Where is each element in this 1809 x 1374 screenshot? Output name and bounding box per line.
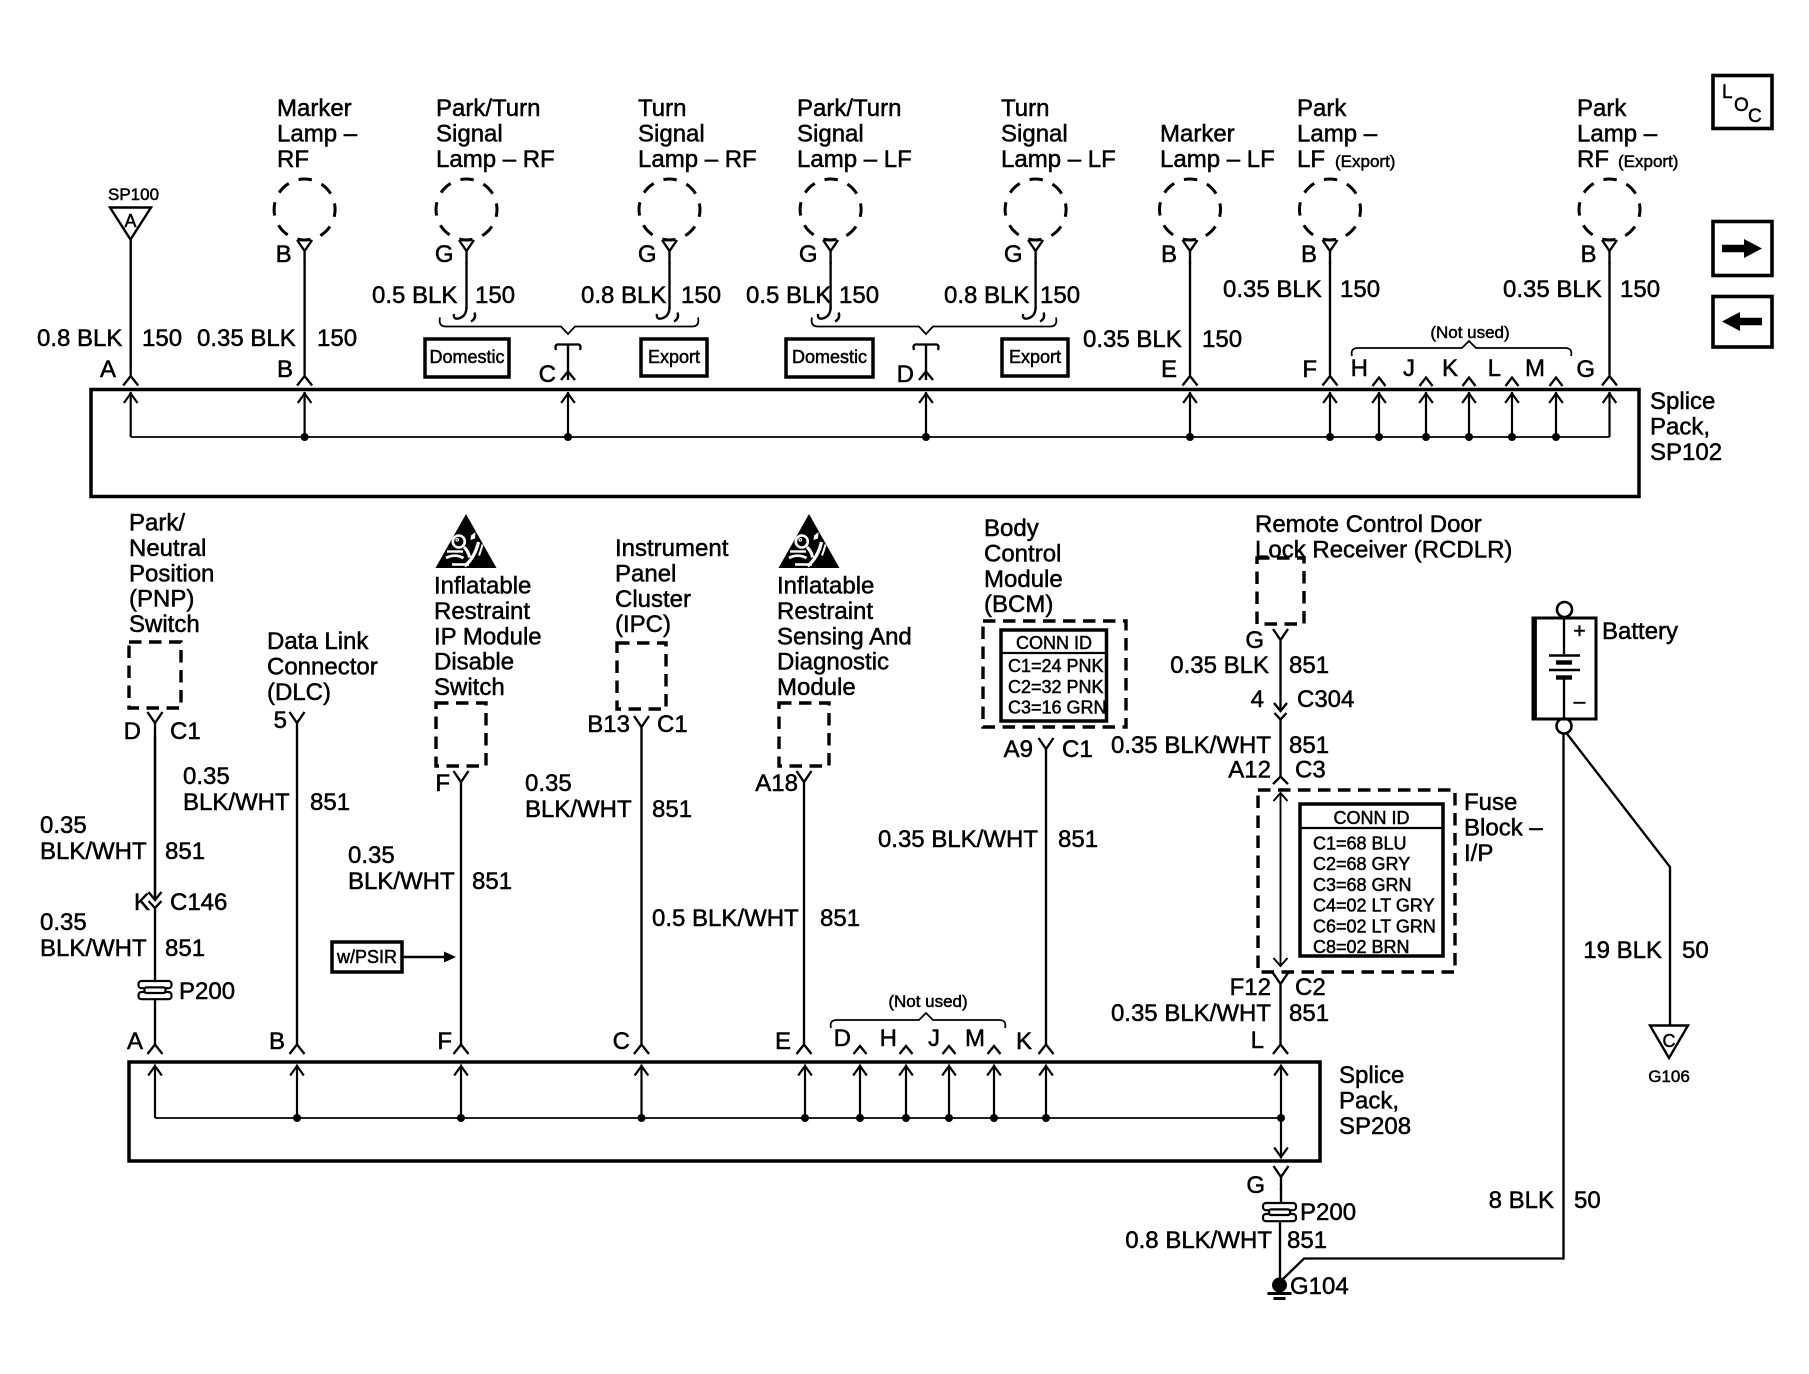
svg-text:Turn: Turn — [1001, 95, 1049, 122]
label (Not used) SP102 pins — [1430, 323, 1509, 342]
svg-text:0.35 BLK: 0.35 BLK — [1223, 276, 1322, 303]
wire label 0.35 BLK/WHT 851 — [1111, 732, 1329, 759]
svg-text:0.35: 0.35 — [40, 812, 87, 839]
svg-text:Body: Body — [984, 515, 1039, 542]
connector chevron A — [123, 376, 138, 386]
svg-text:Park: Park — [1297, 95, 1347, 122]
svg-text:0.5 BLK: 0.5 BLK — [746, 282, 831, 309]
wire fuse block to SP208-L — [1279, 997, 1281, 1044]
svg-text:F: F — [437, 1028, 452, 1055]
pin C2 label — [1295, 974, 1326, 1001]
svg-text:5: 5 — [274, 707, 287, 734]
svg-text:C304: C304 — [1297, 686, 1354, 713]
brace (Not used) H-M — [1352, 341, 1572, 356]
svg-text:G: G — [799, 241, 818, 268]
wire label 0.35 BLK/WHT 851 — [878, 826, 1098, 853]
splice SP102 internal bus — [124, 392, 1616, 441]
node C label at SP208 — [613, 1028, 630, 1055]
label LF (Export) suffix — [1297, 146, 1395, 173]
svg-text:Export: Export — [648, 347, 700, 367]
svg-text:Turn: Turn — [638, 95, 686, 122]
svg-text:Lamp – LF: Lamp – LF — [1160, 146, 1275, 173]
svg-text:G: G — [1245, 627, 1264, 654]
svg-text:851: 851 — [1289, 732, 1329, 759]
svg-text:C6=02 LT GRN: C6=02 LT GRN — [1313, 916, 1436, 936]
wire label 0.35 BLK 150 — [1083, 326, 1242, 353]
svg-text:Signal: Signal — [797, 120, 864, 147]
connector Y at PNP pin D/C1 — [148, 712, 163, 736]
svg-text:B: B — [277, 356, 293, 383]
node A label at SP102 — [100, 356, 116, 383]
svg-text:F12: F12 — [1230, 974, 1271, 1001]
svg-text:Signal: Signal — [638, 120, 705, 147]
label Splice Pack, SP102 — [1650, 388, 1722, 466]
wire Turn RF (hook to Export brace) — [657, 262, 678, 322]
svg-text:8 BLK: 8 BLK — [1489, 1187, 1554, 1214]
pin G of Park/Turn Signal Lamp LF — [799, 241, 818, 268]
wire label 19 BLK 50 — [1583, 937, 1708, 964]
svg-text:Lamp – LF: Lamp – LF — [797, 146, 912, 173]
wire label 0.35 BLK 150 — [197, 325, 357, 352]
wire label 8 BLK 50 — [1489, 1187, 1601, 1214]
svg-text:C1: C1 — [170, 718, 201, 745]
label Turn Signal Lamp LF — [1001, 95, 1116, 173]
splice SP100 label — [108, 185, 159, 204]
svg-text:B: B — [1580, 241, 1596, 268]
connector A12/C3 (fuse block) — [1228, 757, 1325, 785]
pin C1 label — [657, 711, 688, 738]
svg-text:50: 50 — [1574, 1187, 1601, 1214]
label Marker Lamp LF — [1160, 120, 1275, 172]
pin D label — [124, 718, 141, 745]
wire label 0.35 BLK/WHT 851 — [525, 770, 692, 823]
connector Y at fuse pin F12/C2 — [1273, 973, 1288, 997]
svg-text:SP208: SP208 — [1339, 1113, 1411, 1140]
connector Y at DLC pin 5 — [290, 712, 305, 736]
svg-text:(IPC): (IPC) — [615, 611, 671, 638]
pin K SP102 (not used) — [1442, 355, 1476, 386]
connector Y at switch pin F — [454, 771, 469, 795]
svg-text:0.35 BLK: 0.35 BLK — [1083, 326, 1182, 353]
svg-text:O: O — [1734, 95, 1749, 116]
wire label 0.35 BLK/WHT 851 — [1111, 1000, 1329, 1027]
svg-text:0.35 BLK: 0.35 BLK — [1170, 652, 1269, 679]
svg-text:BLK/WHT: BLK/WHT — [348, 868, 455, 895]
flag w/PSIR — [332, 942, 456, 972]
node D label — [897, 361, 914, 388]
wire IPC to SP208-C — [640, 740, 642, 1044]
node E label at SP208 — [775, 1028, 791, 1055]
svg-text:150: 150 — [681, 282, 721, 309]
svg-text:+: + — [1573, 620, 1585, 643]
svg-text:Switch: Switch — [129, 611, 200, 638]
svg-text:851: 851 — [472, 868, 512, 895]
connector chevron L (SP208) — [1273, 1045, 1288, 1055]
svg-text:0.5 BLK/WHT: 0.5 BLK/WHT — [652, 905, 799, 932]
connector chevron K (SP208) — [1039, 1045, 1054, 1055]
svg-text:M: M — [965, 1025, 985, 1052]
svg-text:CONN ID: CONN ID — [1016, 633, 1092, 653]
svg-text:C3: C3 — [1295, 757, 1326, 784]
svg-text:A9: A9 — [1004, 736, 1033, 763]
pin G label — [1245, 627, 1264, 654]
svg-text:Neutral: Neutral — [129, 535, 206, 562]
svg-text:C4=02 LT GRY: C4=02 LT GRY — [1313, 896, 1435, 916]
svg-text:D: D — [124, 718, 141, 745]
node E label — [1161, 356, 1177, 383]
splice pack SP208 box — [129, 1062, 1320, 1161]
splice pack SP102 box — [91, 390, 1639, 497]
svg-text:K: K — [1442, 355, 1458, 382]
svg-text:Pack,: Pack, — [1650, 413, 1710, 440]
svg-text:Remote Control Door: Remote Control Door — [1255, 511, 1482, 538]
svg-text:C1: C1 — [1062, 736, 1093, 763]
svg-text:C1=68 BLU: C1=68 BLU — [1313, 834, 1407, 854]
wire battery to G106 (19 BLK) — [1566, 733, 1670, 1027]
pin A9 label — [1004, 736, 1033, 763]
lamp Park Lamp LF (Export) — [1300, 179, 1361, 264]
svg-text:BLK/WHT: BLK/WHT — [40, 838, 147, 865]
svg-text:SP102: SP102 — [1650, 439, 1722, 466]
connector Y at SDM pin A18 — [797, 771, 812, 795]
svg-text:G104: G104 — [1290, 1273, 1349, 1300]
svg-text:0.5 BLK: 0.5 BLK — [372, 282, 457, 309]
svg-text:E: E — [1161, 356, 1177, 383]
connector C146 pin K — [134, 736, 227, 916]
svg-text:150: 150 — [142, 325, 182, 352]
wire label 0.35 BLK 851 — [1170, 652, 1329, 679]
battery B+ terminal — [1557, 602, 1572, 617]
wire label 0.8 BLK 150 — [581, 282, 721, 309]
svg-text:Lamp – LF: Lamp – LF — [1001, 146, 1116, 173]
wire label 0.8 BLK 150 — [944, 282, 1080, 309]
svg-text:150: 150 — [1040, 282, 1080, 309]
svg-text:150: 150 — [475, 282, 515, 309]
svg-text:Splice: Splice — [1339, 1062, 1404, 1089]
svg-text:(Export): (Export) — [1618, 152, 1678, 171]
wire SDM to SP208-E — [803, 795, 805, 1044]
svg-text:Splice: Splice — [1650, 388, 1715, 415]
svg-text:C3=68 GRN: C3=68 GRN — [1313, 875, 1412, 895]
svg-text:Restraint: Restraint — [434, 598, 530, 625]
svg-text:Lock Receiver (RCDLR): Lock Receiver (RCDLR) — [1255, 536, 1512, 563]
lamp Park/Turn Signal Lamp RF — [436, 179, 497, 264]
connector Y at SP208 pin G — [1274, 1166, 1289, 1190]
box Export (C) — [641, 339, 707, 376]
lamp Turn Signal Lamp LF — [1005, 179, 1066, 264]
node A label at SP208 — [127, 1028, 143, 1055]
svg-text:19 BLK: 19 BLK — [1583, 937, 1662, 964]
svg-text:Cluster: Cluster — [615, 586, 691, 613]
label RF (Export) suffix — [1577, 146, 1678, 173]
label Park Lamp LF (Export) — [1297, 95, 1378, 147]
box Domestic (C) — [425, 339, 509, 377]
svg-text:L: L — [1488, 355, 1501, 382]
svg-text:C2=32 PNK: C2=32 PNK — [1008, 677, 1104, 697]
svg-text:(PNP): (PNP) — [129, 586, 194, 613]
wire label 0.5 BLK 150 — [372, 282, 515, 309]
svg-text:Battery: Battery — [1602, 618, 1678, 645]
label Fuse Block - I/P — [1464, 789, 1543, 867]
lamp Marker Lamp LF — [1160, 179, 1221, 264]
component BCM (dashed box) — [983, 621, 1126, 727]
component Fuse Block I/P (dashed box) — [1258, 790, 1455, 972]
label Instrument Panel Cluster (IPC) — [615, 535, 729, 638]
pin M SP102 (not used) — [1525, 355, 1563, 386]
svg-text:Signal: Signal — [436, 120, 503, 147]
wire Park/Turn LF (hook to Domestic brace) — [818, 262, 839, 322]
wire SP208-G to P200 — [1280, 1188, 1282, 1206]
pin M SP208 (not used) — [965, 1025, 1001, 1054]
svg-text:BLK/WHT: BLK/WHT — [525, 796, 632, 823]
svg-text:851: 851 — [1289, 652, 1329, 679]
svg-text:Position: Position — [129, 560, 214, 587]
svg-text:C146: C146 — [170, 889, 227, 916]
svg-text:Lamp – RF: Lamp – RF — [436, 146, 555, 173]
pin G of Park/Turn Signal Lamp RF — [435, 241, 454, 268]
svg-text:Lamp – RF: Lamp – RF — [638, 146, 757, 173]
svg-text:CONN ID: CONN ID — [1334, 808, 1410, 828]
pin B13 label — [587, 711, 630, 738]
wire Park RF to SP102-G — [1608, 262, 1610, 375]
grommet P200 (ground branch) — [1263, 1199, 1356, 1226]
table Fuse Block CONN ID — [1300, 804, 1443, 957]
svg-text:851: 851 — [820, 905, 860, 932]
connector C to SP102 — [556, 344, 581, 380]
svg-text:C: C — [539, 361, 556, 388]
svg-text:Panel: Panel — [615, 560, 676, 587]
svg-text:150: 150 — [839, 282, 879, 309]
svg-text:B: B — [276, 241, 292, 268]
pin C1 label — [170, 718, 201, 745]
svg-text:M: M — [1525, 355, 1545, 382]
node G label — [1576, 356, 1595, 383]
svg-text:Marker: Marker — [277, 95, 352, 122]
svg-text:Domestic: Domestic — [792, 347, 867, 367]
wire label 0.35 BLK/WHT 851 — [40, 909, 205, 962]
wire label 0.5 BLK/WHT 851 — [652, 905, 860, 932]
pin F12 label — [1230, 974, 1271, 1001]
svg-text:A12: A12 — [1228, 757, 1271, 784]
pin B of Park Lamp RF (Export) — [1580, 241, 1596, 268]
pin F label — [435, 770, 450, 797]
svg-text:(Not used): (Not used) — [888, 992, 967, 1011]
svg-text:C2=68 GRY: C2=68 GRY — [1313, 854, 1410, 874]
svg-text:SP100: SP100 — [108, 185, 159, 204]
label Turn Signal Lamp RF — [638, 95, 757, 173]
svg-text:B13: B13 — [587, 711, 630, 738]
wire label 0.35 BLK 150 — [1223, 276, 1380, 303]
svg-text:Domestic: Domestic — [429, 347, 504, 367]
svg-text:Lamp –: Lamp – — [277, 120, 358, 147]
svg-text:Park/Turn: Park/Turn — [797, 95, 901, 122]
svg-text:H: H — [1351, 355, 1368, 382]
svg-text:Marker: Marker — [1160, 120, 1235, 147]
svg-text:I/P: I/P — [1464, 840, 1493, 867]
brace (Not used) D-M — [831, 1013, 1006, 1028]
label Remote Control Door Lock Receiver (RCDLR) — [1255, 511, 1512, 563]
wire Turn LF (hook to Export brace) — [1023, 262, 1044, 322]
node L label at SP208 — [1251, 1027, 1264, 1054]
svg-text:(DLC): (DLC) — [267, 679, 331, 706]
lamp Marker Lamp RF — [274, 179, 335, 264]
svg-text:C1=24 PNK: C1=24 PNK — [1008, 656, 1104, 676]
pin G of Turn Signal Lamp RF — [638, 241, 657, 268]
wire label 0.35 BLK 150 — [1503, 276, 1660, 303]
svg-text:851: 851 — [652, 796, 692, 823]
svg-text:Park: Park — [1577, 95, 1627, 122]
wire switch to SP208-F — [460, 795, 462, 1044]
svg-text:C1: C1 — [657, 711, 688, 738]
svg-text:0.35 BLK: 0.35 BLK — [197, 325, 296, 352]
svg-text:Block –: Block – — [1464, 814, 1543, 841]
svg-text:0.35 BLK: 0.35 BLK — [1503, 276, 1602, 303]
wire label 0.8 BLK 150 (circuit 150) — [37, 325, 182, 352]
node F label at SP208 — [437, 1028, 452, 1055]
splice SP100 triangle connector A — [110, 208, 151, 240]
svg-text:150: 150 — [1340, 276, 1380, 303]
pin B of Marker Lamp LF — [1161, 241, 1177, 268]
svg-text:K: K — [1016, 1028, 1032, 1055]
pin H SP208 (not used) — [880, 1025, 913, 1054]
box Export (D) — [1002, 339, 1068, 376]
label G106 — [1648, 1067, 1690, 1086]
connector chevron C (SP208) — [634, 1045, 649, 1055]
connector Y at BCM pin A9/C1 — [1039, 738, 1054, 762]
svg-text:Lamp –: Lamp – — [1577, 120, 1658, 147]
wire Park/Turn RF (hook to Domestic brace) — [454, 262, 475, 322]
wire P200 to G104 — [1279, 1221, 1281, 1281]
wire label 0.35 BLK/WHT 851 — [40, 812, 205, 865]
svg-text:Inflatable: Inflatable — [434, 573, 531, 600]
svg-text:0.8 BLK/WHT: 0.8 BLK/WHT — [1125, 1227, 1272, 1254]
pin B of Park Lamp LF (Export) — [1301, 241, 1317, 268]
icon arrow-right box — [1713, 222, 1772, 276]
svg-text:IP Module: IP Module — [434, 623, 542, 650]
svg-text:0.8 BLK: 0.8 BLK — [581, 282, 666, 309]
wire SP100 to SP102-A — [130, 240, 132, 376]
svg-text:A: A — [124, 211, 136, 231]
connector C304 pin 4 — [1251, 686, 1355, 720]
svg-text:H: H — [880, 1025, 897, 1052]
svg-text:A18: A18 — [755, 770, 798, 797]
svg-text:Export: Export — [1009, 347, 1061, 367]
svg-text:(Not used): (Not used) — [1430, 323, 1509, 342]
icon SRS warning triangle (SDM) — [779, 514, 840, 568]
wire RCDLR to C304 — [1279, 653, 1281, 711]
svg-text:851: 851 — [165, 838, 205, 865]
wire label 0.35 BLK/WHT 851 — [183, 763, 350, 816]
svg-text:851: 851 — [1058, 826, 1098, 853]
pin B of Marker Lamp RF — [276, 241, 292, 268]
icon SRS warning triangle (disable switch) — [436, 514, 497, 568]
node B label — [277, 356, 293, 383]
svg-text:C: C — [613, 1028, 630, 1055]
node F label — [1302, 356, 1317, 383]
svg-text:w/PSIR: w/PSIR — [336, 947, 397, 967]
connector chevron F — [1323, 376, 1338, 386]
pin G of Turn Signal Lamp LF — [1004, 241, 1023, 268]
svg-text:F: F — [435, 770, 450, 797]
svg-text:LF: LF — [1297, 146, 1325, 173]
wire label 0.35 BLK/WHT 851 — [348, 842, 512, 895]
label Splice Pack, SP208 — [1339, 1062, 1411, 1140]
connector Y at IPC pin B13/C1 — [634, 716, 649, 740]
svg-text:Data Link: Data Link — [267, 628, 369, 655]
wire label 0.5 BLK 150 — [746, 282, 879, 309]
svg-text:G: G — [1004, 241, 1023, 268]
svg-text:150: 150 — [317, 325, 357, 352]
svg-text:G106: G106 — [1648, 1067, 1690, 1086]
wire label 0.8 BLK/WHT 851 — [1125, 1227, 1327, 1254]
svg-text:C: C — [1748, 106, 1762, 127]
pin J SP208 (not used) — [928, 1025, 956, 1054]
svg-text:Park/Turn: Park/Turn — [436, 95, 540, 122]
pin 5 label — [274, 707, 287, 734]
svg-text:B: B — [269, 1028, 285, 1055]
svg-text:Inflatable: Inflatable — [777, 573, 874, 600]
wire G104 to battery negative (8 BLK) — [1283, 733, 1564, 1279]
label Inflatable Restraint IP Module Disable Switch — [434, 573, 542, 702]
node C label — [539, 361, 556, 388]
pin D SP208 (not used) — [834, 1025, 867, 1054]
node K label at SP208 — [1016, 1028, 1032, 1055]
svg-text:0.35: 0.35 — [348, 842, 395, 869]
svg-text:Instrument: Instrument — [615, 535, 729, 562]
brace C (Domestic/Export merge) — [440, 318, 699, 335]
component SDM (dashed box) — [779, 703, 829, 766]
svg-text:851: 851 — [1287, 1227, 1327, 1254]
label Battery — [1602, 618, 1678, 645]
lamp Turn Signal Lamp RF — [639, 179, 700, 264]
svg-text:0.35: 0.35 — [525, 770, 572, 797]
label Park/Turn Signal Lamp LF — [797, 95, 912, 173]
svg-text:Park/: Park/ — [129, 510, 185, 537]
connector D to SP102 — [914, 344, 939, 380]
wire inside fuse block — [1274, 793, 1288, 966]
brace D (Domestic/Export merge) — [812, 318, 1057, 335]
svg-text:Pack,: Pack, — [1339, 1087, 1399, 1114]
svg-text:Control: Control — [984, 540, 1061, 567]
svg-text:851: 851 — [165, 935, 205, 962]
icon arrow-left box — [1713, 297, 1772, 348]
svg-text:J: J — [1403, 355, 1415, 382]
svg-text:851: 851 — [310, 789, 350, 816]
connector chevron G — [1602, 376, 1617, 386]
svg-text:D: D — [897, 361, 914, 388]
wire C304 to A12 — [1279, 720, 1281, 777]
pin A18 label — [755, 770, 798, 797]
svg-text:851: 851 — [1289, 1000, 1329, 1027]
svg-text:Diagnostic: Diagnostic — [777, 649, 889, 676]
svg-text:BLK/WHT: BLK/WHT — [40, 935, 147, 962]
component PNP Switch (dashed box) — [129, 642, 181, 708]
pin J SP102 (not used) — [1403, 355, 1433, 386]
svg-text:B: B — [1301, 241, 1317, 268]
svg-text:0.35 BLK/WHT: 0.35 BLK/WHT — [878, 826, 1038, 853]
pin L SP102 (not used) — [1488, 355, 1519, 386]
svg-text:G: G — [435, 241, 454, 268]
pin H SP102 (not used) — [1351, 355, 1386, 386]
label Body Control Module (BCM) — [984, 515, 1063, 618]
svg-text:B: B — [1161, 241, 1177, 268]
label Park/Neutral Position (PNP) Switch — [129, 510, 214, 639]
svg-text:C: C — [1663, 1031, 1676, 1051]
node B label at SP208 — [269, 1028, 285, 1055]
svg-text:BLK/WHT: BLK/WHT — [183, 789, 290, 816]
svg-text:D: D — [834, 1025, 851, 1052]
svg-text:G: G — [1576, 356, 1595, 383]
